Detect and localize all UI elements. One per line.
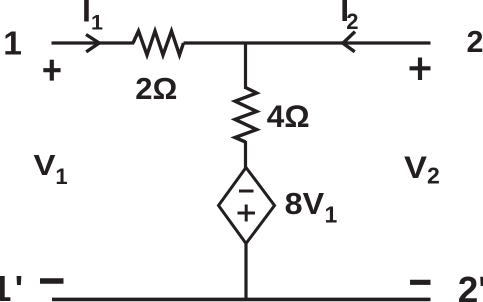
resistor R 4ohm zigzag [235,88,257,143]
polarity minus left (port 1) [40,278,64,283]
wire source to bottom rail [244,244,247,300]
svg-text:1: 1 [3,26,22,63]
svg-text:8V: 8V [285,186,325,221]
svg-text:1: 1 [0,268,11,302]
wire top-left segment [52,41,135,44]
wire node to 4ohm resistor [244,43,247,89]
current arrow I2 [343,32,355,52]
wire top-right segment [184,41,431,44]
minus sign inside source [239,190,254,193]
wire bottom rail [52,298,431,302]
svg-text:V: V [34,150,57,182]
svg-text:4Ω: 4Ω [267,98,310,134]
current arrow I1 [86,35,99,52]
polarity plus right (port 2) [410,66,431,70]
svg-text:1: 1 [91,11,103,35]
dependent source diamond 8V1 [219,168,275,244]
svg-text:V: V [404,149,427,185]
svg-text:': ' [15,268,24,302]
svg-text:2: 2 [467,25,483,59]
svg-text:2': 2' [458,270,483,302]
wire 4ohm to dependent source [244,141,247,169]
svg-text:1: 1 [325,202,338,228]
svg-text:1: 1 [55,164,67,189]
svg-text:2: 2 [427,163,440,189]
svg-text:2: 2 [346,9,358,34]
svg-text:2Ω: 2Ω [135,71,177,106]
polarity minus right (port 2) [410,280,431,285]
resistor R 2ohm zigzag [133,31,184,55]
svg-text:I: I [82,0,91,29]
polarity plus left (port 1) [43,68,60,72]
plus sign inside source [238,212,256,215]
